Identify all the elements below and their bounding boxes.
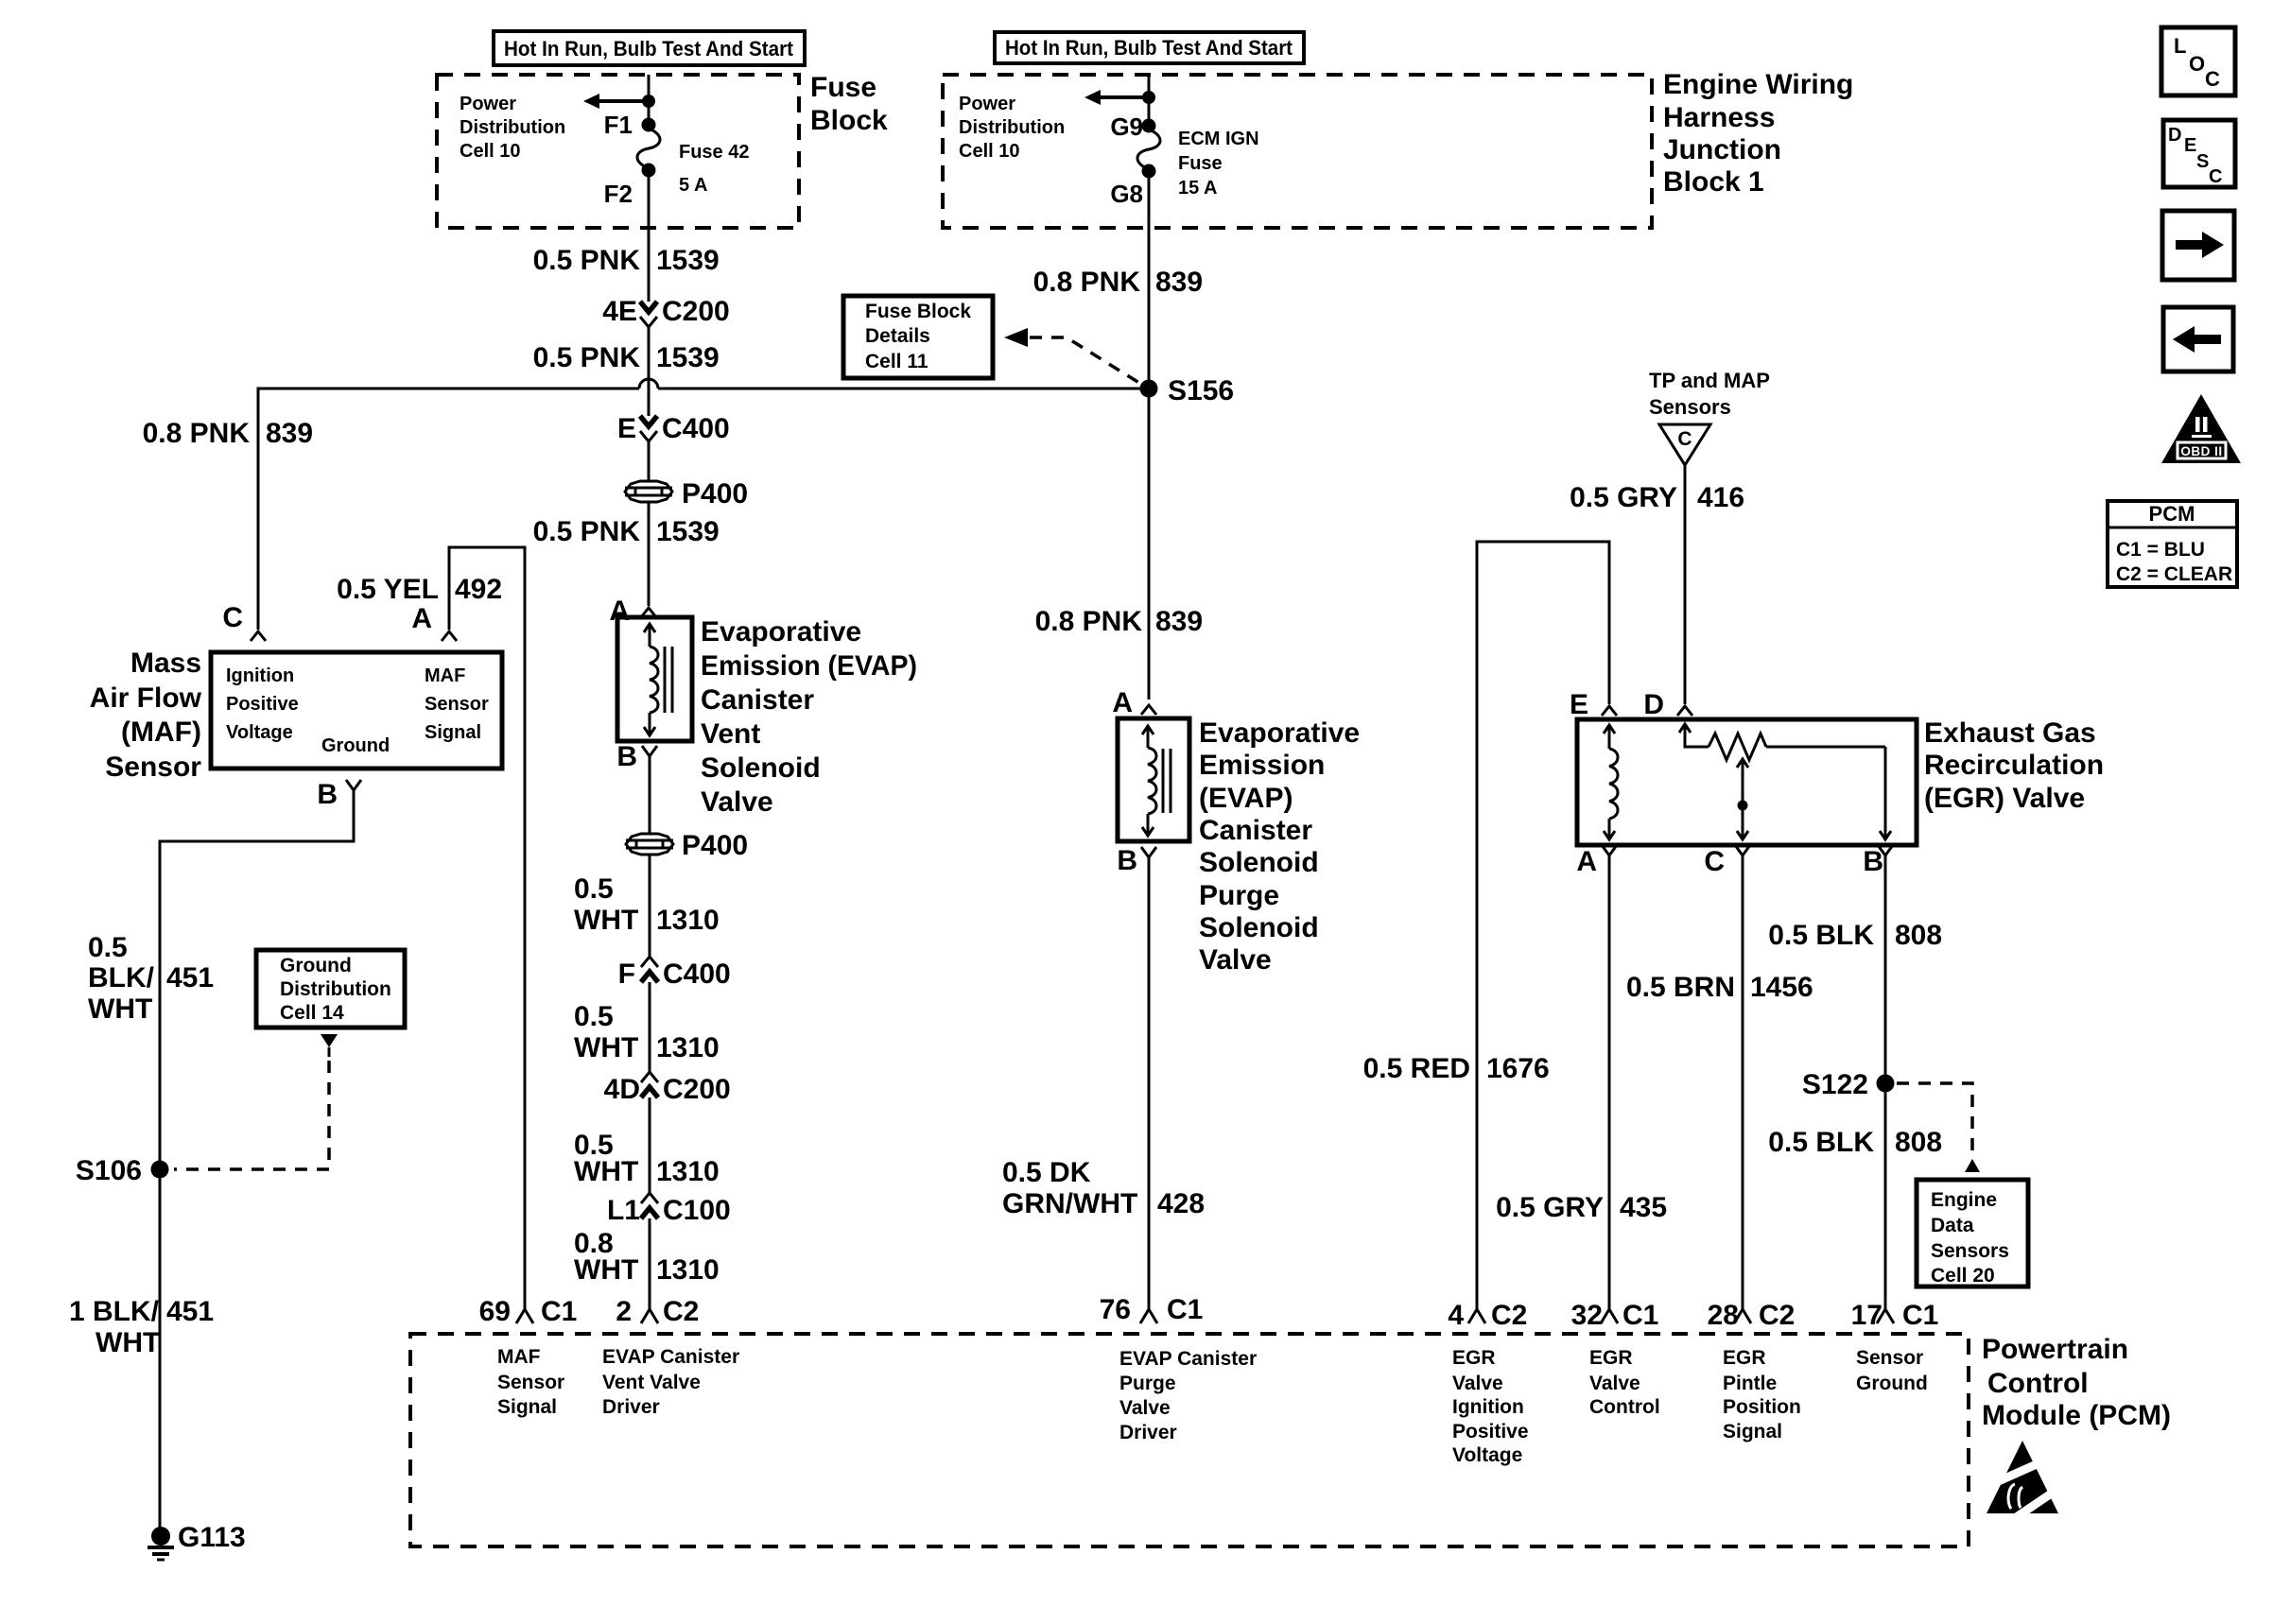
svg-text:Hot In Run, Bulb Test And Star: Hot In Run, Bulb Test And Start (1005, 36, 1293, 60)
svg-text:0.5: 0.5 (88, 932, 128, 963)
svg-text:C: C (2205, 67, 2220, 91)
icon: left arrow box (2163, 307, 2233, 371)
svg-text:C400: C400 (663, 959, 731, 990)
svg-text:WHT: WHT (574, 1032, 638, 1063)
wire: 0.5 PNK 1539 below C200 (648, 327, 651, 416)
svg-text:Signal: Signal (425, 722, 481, 743)
svg-text:76: 76 (1100, 1294, 1131, 1325)
svg-text:Details: Details (865, 325, 930, 347)
svg-text:C: C (222, 602, 243, 633)
svg-text:Driver: Driver (602, 1396, 660, 1418)
label: TP and MAP Sensors (1649, 369, 1770, 419)
svg-text:G113: G113 (178, 1522, 246, 1553)
svg-text:Canister: Canister (1199, 815, 1312, 846)
label: MAF Sensor Signal (PCM pin 69) (497, 1346, 564, 1418)
svg-text:1676: 1676 (1486, 1053, 1550, 1084)
svg-text:P400: P400 (682, 830, 748, 861)
label: 0.5 BLK 808 (upper) (1768, 920, 1942, 951)
svg-text:Engine: Engine (1931, 1189, 1997, 1211)
svg-text:Signal: Signal (497, 1396, 557, 1418)
svg-text:Fuse 42: Fuse 42 (679, 142, 749, 163)
svg-text:1456: 1456 (1750, 972, 1813, 1003)
wire: PNK 839 horizontal branch from S156 to MAF with hop over vent wire (258, 379, 1149, 630)
label: 0.5 PNK 1539 (533, 245, 720, 276)
label: 0.5 PNK 1539 (533, 342, 720, 373)
svg-text:F1: F1 (604, 111, 633, 139)
svg-text:Valve: Valve (701, 786, 773, 818)
svg-text:Purge: Purge (1199, 880, 1279, 911)
svg-text:Cell 14: Cell 14 (280, 1002, 344, 1024)
wire segment to grommet P400 (648, 441, 651, 481)
svg-text:S122: S122 (1802, 1069, 1868, 1100)
label: 0.8 WHT 1310 (574, 1228, 720, 1286)
svg-text:Valve: Valve (1119, 1397, 1171, 1419)
svg-text:Harness: Harness (1663, 102, 1775, 133)
ground G113 (147, 1522, 246, 1560)
svg-text:32: 32 (1571, 1300, 1603, 1331)
svg-text:C100: C100 (663, 1195, 731, 1226)
label: 0.8 PNK 839 (lower) (1035, 606, 1203, 637)
solenoid coil symbol (EGR pins E-A) (1604, 725, 1618, 839)
svg-text:B: B (616, 741, 637, 772)
EGR valve box (1577, 719, 1917, 845)
svg-text:B: B (1117, 845, 1137, 876)
label: Power Distribution Cell 10 (junction block) (959, 94, 1065, 162)
svg-text:E: E (1570, 689, 1588, 720)
svg-text:Sensor: Sensor (105, 752, 201, 783)
svg-text:Emission: Emission (1199, 750, 1325, 781)
ground distribution reference box (256, 950, 405, 1028)
svg-text:O: O (2189, 52, 2205, 76)
wire: feed from hot bus into ECM IGN fuse (1148, 74, 1151, 126)
PCM pin 28 C2 connector (1708, 1300, 1796, 1331)
fuse F42 5A element (637, 129, 660, 168)
PCM pin 2 C2 connector (616, 1296, 699, 1327)
label: 0.5 GRY 416 (1570, 482, 1744, 513)
fuse block details reference box (843, 296, 993, 378)
PCM connector legend box (2108, 501, 2237, 587)
MAF sensor box (211, 652, 502, 769)
svg-text:Evaporative: Evaporative (1199, 717, 1360, 749)
svg-text:E: E (2184, 135, 2196, 156)
svg-text:1310: 1310 (656, 905, 720, 936)
svg-text:EVAP Canister: EVAP Canister (1119, 1348, 1257, 1370)
svg-text:Engine Wiring: Engine Wiring (1663, 69, 1853, 100)
solenoid coil symbol (purge valve) (1142, 726, 1171, 836)
svg-text:GRN/WHT: GRN/WHT (1002, 1188, 1137, 1219)
svg-text:C: C (1677, 428, 1692, 450)
svg-text:Vent: Vent (701, 718, 760, 750)
svg-text:C: C (1704, 846, 1725, 877)
svg-text:0.5 RED: 0.5 RED (1363, 1053, 1470, 1084)
svg-text:28: 28 (1708, 1300, 1739, 1331)
label: 0.5 YEL 492 (337, 574, 502, 605)
svg-text:0.8 PNK: 0.8 PNK (1033, 267, 1141, 298)
svg-text:Ground: Ground (1856, 1373, 1928, 1394)
svg-text:Exhaust Gas: Exhaust Gas (1924, 717, 2096, 749)
solenoid coil symbol (vent valve) (644, 624, 672, 735)
label: Fuse 42 5 A (679, 142, 749, 196)
svg-text:WHT: WHT (95, 1327, 160, 1358)
svg-text:(MAF): (MAF) (121, 717, 201, 748)
svg-text:C2: C2 (1759, 1300, 1795, 1331)
label: 0.8 PNK 839 (left branch) (143, 418, 313, 449)
label: 0.5 PNK 1539 (533, 516, 720, 547)
wire: 0.5 YEL 492 from MAF pin A to PCM pin 69 (449, 547, 525, 1309)
ESD sensitivity symbol (1986, 1441, 2071, 1520)
wire: 0.8 PNK 839 from S156 to EVAP purge solenoid (1148, 389, 1151, 700)
svg-text:MAF: MAF (497, 1346, 541, 1368)
svg-text:839: 839 (1155, 606, 1203, 637)
pin G9 (1110, 112, 1155, 141)
svg-text:Position: Position (1723, 1396, 1801, 1418)
pin A of EGR valve (1576, 845, 1617, 877)
svg-text:0.5 PNK: 0.5 PNK (533, 516, 641, 547)
svg-text:Control: Control (1589, 1396, 1660, 1418)
svg-text:Distribution: Distribution (460, 117, 565, 138)
connector F C400 (618, 957, 731, 990)
wire: 0.5 DK GRN/WHT 428 to PCM pin 76 (1148, 857, 1151, 1309)
svg-text:4: 4 (1448, 1300, 1464, 1331)
svg-text:Ignition: Ignition (226, 665, 294, 686)
svg-text:4E: 4E (602, 296, 637, 327)
wire: 0.5 WHT 1310 (649, 982, 651, 1072)
wire: 0.5 BRN 1456 from EGR pin C to PCM pin 28 (1742, 855, 1744, 1309)
svg-text:17: 17 (1851, 1300, 1883, 1331)
svg-text:Sensor: Sensor (497, 1372, 564, 1393)
svg-text:428: 428 (1157, 1188, 1205, 1219)
svg-text:Evaporative: Evaporative (701, 616, 861, 648)
pin C of MAF sensor (222, 602, 266, 641)
svg-text:0.8 PNK: 0.8 PNK (1035, 606, 1143, 637)
svg-text:Ignition: Ignition (1452, 1396, 1524, 1418)
svg-text:0.5 PNK: 0.5 PNK (533, 342, 641, 373)
label: 0.5 GRY 435 (1496, 1192, 1667, 1223)
svg-text:0.5 BRN: 0.5 BRN (1626, 972, 1735, 1003)
svg-text:Fuse Block: Fuse Block (865, 301, 971, 322)
pin F2 (604, 164, 656, 209)
svg-text:Solenoid: Solenoid (701, 752, 821, 784)
pin A of EVAP vent solenoid (609, 596, 656, 627)
label: 0.5 DK GRN/WHT 428 (1002, 1157, 1205, 1219)
svg-text:Valve: Valve (1452, 1373, 1503, 1394)
svg-text:WHT: WHT (574, 905, 638, 936)
svg-text:0.8 PNK: 0.8 PNK (143, 418, 251, 449)
svg-text:MAF: MAF (425, 665, 465, 686)
label: Engine Wiring Harness Junction Block 1 (1663, 69, 1853, 198)
svg-text:Air Flow: Air Flow (90, 682, 202, 714)
svg-text:D: D (1643, 689, 1664, 720)
svg-text:ECM IGN: ECM IGN (1178, 129, 1259, 149)
svg-text:EGR: EGR (1723, 1347, 1766, 1369)
svg-text:Junction: Junction (1663, 134, 1781, 165)
svg-text:451: 451 (166, 1296, 214, 1327)
splice S156 (1140, 375, 1235, 406)
label: 0.5 BLK 808 (lower) (1768, 1127, 1942, 1158)
wire: 0.5 RED 1676 from PCM pin 4 up and over to EGR pin E (1477, 542, 1609, 1309)
label: EGR Valve Control (PCM pin 32) (1589, 1347, 1660, 1418)
label: Sensor Ground (PCM pin 17) (1856, 1347, 1928, 1394)
svg-text:0.5 BLK: 0.5 BLK (1768, 920, 1874, 951)
svg-text:Sensors: Sensors (1649, 395, 1731, 419)
svg-text:TP and MAP: TP and MAP (1649, 369, 1770, 392)
icon: LOC box (2161, 27, 2235, 95)
dashed leader from S106 to ground distribution box (174, 1034, 338, 1169)
svg-text:0.5 YEL: 0.5 YEL (337, 574, 439, 605)
svg-text:1539: 1539 (656, 245, 720, 276)
svg-text:F2: F2 (604, 180, 633, 208)
svg-text:A: A (1576, 846, 1597, 877)
svg-text:Vent Valve: Vent Valve (602, 1372, 701, 1393)
icon: OBD II triangle (2161, 394, 2241, 463)
svg-text:1 BLK/: 1 BLK/ (69, 1296, 160, 1327)
svg-text:Positive: Positive (226, 694, 299, 715)
header box: Hot In Run, Bulb Test And Start (junction block) (995, 32, 1304, 63)
label: MAF Sensor Signal (MAF pin A) (425, 665, 489, 743)
svg-text:(EVAP): (EVAP) (1199, 783, 1293, 814)
svg-text:451: 451 (166, 962, 214, 993)
svg-text:G9: G9 (1110, 112, 1143, 141)
svg-text:Block 1: Block 1 (1663, 166, 1764, 198)
wire: 0.8 PNK 839 from G8 to S156 (1148, 175, 1151, 389)
svg-text:Signal: Signal (1723, 1421, 1782, 1443)
svg-text:WHT: WHT (574, 1156, 638, 1187)
svg-text:0.5 BLK: 0.5 BLK (1768, 1127, 1874, 1158)
svg-text:Cell 10: Cell 10 (959, 141, 1019, 162)
svg-text:1310: 1310 (656, 1156, 720, 1187)
PCM pin 32 C1 connector (1571, 1300, 1659, 1331)
svg-text:Powertrain: Powertrain (1982, 1334, 2128, 1365)
svg-text:0.5: 0.5 (574, 873, 614, 905)
svg-text:Power: Power (460, 94, 516, 114)
svg-text:P400: P400 (682, 478, 748, 510)
svg-text:Positive: Positive (1452, 1421, 1529, 1443)
svg-text:PCM: PCM (2149, 502, 2195, 526)
icon: DESC box (2163, 120, 2235, 187)
dashed leader from S122 to engine data sensors box (1897, 1083, 1980, 1172)
powertrain control module dashed box (410, 1334, 1969, 1546)
engine wiring harness junction block dashed box (943, 75, 1652, 228)
PCM pin 76 C1 connector (1100, 1294, 1204, 1325)
svg-text:B: B (1863, 846, 1883, 877)
svg-text:A: A (1112, 687, 1133, 718)
label: EGR Valve Ignition Positive Voltage (PCM pin 4) (1452, 1347, 1529, 1466)
label: 0.8 PNK 839 (upper) (1033, 267, 1203, 298)
label: ECM IGN Fuse 15 A (1178, 129, 1259, 199)
svg-text:C: C (2209, 166, 2222, 187)
pin B of EVAP purge solenoid (1117, 845, 1156, 876)
pin E of EGR valve (1570, 689, 1617, 720)
pin F1 (604, 111, 656, 139)
svg-text:B: B (317, 779, 338, 810)
svg-text:C2: C2 (663, 1296, 699, 1327)
svg-text:E: E (617, 413, 636, 444)
label: Ignition Positive Voltage (MAF pin C) (226, 665, 299, 743)
svg-text:5 A: 5 A (679, 175, 707, 196)
pin B of EVAP vent solenoid (616, 741, 657, 772)
wire below vent solenoid (649, 756, 651, 834)
svg-text:C1: C1 (541, 1296, 577, 1327)
splice S122 (1802, 1069, 1895, 1100)
svg-text:Fuse: Fuse (810, 72, 876, 103)
svg-text:1539: 1539 (656, 342, 720, 373)
svg-text:Fuse: Fuse (1178, 153, 1223, 174)
EVAP canister vent solenoid valve box (617, 617, 692, 741)
label: Evaporative Emission (EVAP) Canister Vent Solenoid Valve (701, 616, 917, 818)
label: 0.5 BRN 1456 (1626, 972, 1813, 1003)
svg-text:0.5 DK: 0.5 DK (1002, 1157, 1091, 1188)
wire: 0.5 PNK 1539 from fuse F2 down (648, 174, 651, 302)
PCM pin 4 C2 connector (1448, 1300, 1527, 1331)
connector E C400 (617, 413, 730, 444)
svg-text:L1: L1 (607, 1195, 640, 1226)
svg-text:C2: C2 (1491, 1300, 1527, 1331)
svg-text:C200: C200 (663, 1074, 731, 1105)
svg-text:EVAP Canister: EVAP Canister (602, 1346, 739, 1368)
PCM pin 69 C1 connector (479, 1296, 578, 1327)
svg-text:492: 492 (455, 574, 502, 605)
wire: 0.5 WHT 1310 (649, 855, 651, 957)
svg-text:Block: Block (810, 105, 888, 136)
arrow: power distribution feed (left) (583, 94, 649, 109)
pin B of MAF sensor (317, 779, 361, 810)
svg-text:808: 808 (1895, 1127, 1942, 1158)
pin G8 (1110, 164, 1155, 209)
svg-text:839: 839 (266, 418, 313, 449)
junction dot at ECM IGN feed (1142, 91, 1155, 104)
label: Powertrain Control Module (PCM) (1982, 1334, 2171, 1431)
svg-text:Canister: Canister (701, 684, 814, 716)
svg-text:BLK/: BLK/ (88, 962, 155, 993)
svg-text:Valve: Valve (1199, 944, 1272, 976)
svg-text:Control: Control (1987, 1368, 2089, 1399)
label: 0.5 WHT 1310 (574, 873, 720, 936)
svg-text:Solenoid: Solenoid (1199, 912, 1319, 943)
label: Mass Air Flow (MAF) Sensor (90, 648, 202, 783)
svg-text:Solenoid: Solenoid (1199, 847, 1319, 878)
svg-text:1539: 1539 (656, 516, 720, 547)
dashed leader from S156 to fuse block details box (1004, 328, 1142, 385)
svg-text:Distribution: Distribution (280, 978, 391, 1000)
svg-text:A: A (411, 603, 432, 634)
engine data sensors reference box (1917, 1180, 2028, 1287)
connector L1 C100 (607, 1193, 731, 1226)
svg-text:C1: C1 (1622, 1300, 1658, 1331)
pin C of EGR valve (1704, 845, 1750, 877)
svg-text:1310: 1310 (656, 1254, 720, 1286)
svg-text:D: D (2168, 125, 2181, 146)
EGR pintle position potentiometer (pins D-C-B) (1679, 724, 1891, 839)
grommet P400 (upper) (625, 478, 748, 510)
pin A of MAF sensor (411, 603, 457, 641)
svg-text:839: 839 (1155, 267, 1203, 298)
label: Evaporative Emission (EVAP) Canister Solenoid Purge Solenoid Valve (1199, 717, 1360, 976)
svg-text:C1: C1 (1167, 1294, 1203, 1325)
wire: 0.5 GRY 416 from triangle to EGR pin D (1684, 465, 1687, 704)
svg-text:435: 435 (1620, 1192, 1667, 1223)
svg-text:Driver: Driver (1119, 1422, 1177, 1443)
svg-text:Voltage: Voltage (1452, 1444, 1522, 1466)
svg-text:0.5 PNK: 0.5 PNK (533, 245, 641, 276)
PCM pin 17 C1 connector (1851, 1300, 1939, 1331)
svg-text:EGR: EGR (1452, 1347, 1496, 1369)
svg-text:808: 808 (1895, 920, 1942, 951)
svg-text:416: 416 (1697, 482, 1744, 513)
svg-text:15 A: 15 A (1178, 178, 1218, 199)
svg-text:L: L (2174, 34, 2186, 58)
fuse block dashed box (437, 75, 799, 228)
label: 0.5 BLK/ WHT 451 (88, 932, 214, 1025)
svg-text:S106: S106 (76, 1155, 142, 1186)
svg-text:(EGR) Valve: (EGR) Valve (1924, 783, 2085, 814)
svg-text:Voltage: Voltage (226, 722, 293, 743)
svg-text:WHT: WHT (88, 993, 152, 1025)
wire: 0.5 BLK/WHT 451 from MAF pin B to G113 (160, 790, 354, 1536)
svg-text:S156: S156 (1168, 375, 1234, 406)
wire: 0.5 WHT 1310 (649, 1097, 651, 1193)
svg-text:WHT: WHT (574, 1254, 638, 1286)
svg-text:Module (PCM): Module (PCM) (1982, 1400, 2171, 1431)
svg-text:Ground: Ground (321, 735, 390, 756)
fuse ECM IGN 15A element (1137, 130, 1160, 169)
svg-text:Purge: Purge (1119, 1373, 1176, 1394)
label: Exhaust Gas Recirculation (EGR) Valve (1924, 717, 2104, 814)
pin B of EGR valve (1863, 845, 1893, 877)
svg-text:Cell 10: Cell 10 (460, 141, 520, 162)
svg-text:S: S (2196, 151, 2209, 172)
header box: Hot In Run, Bulb Test And Start (fuse block) (494, 31, 805, 65)
svg-text:C200: C200 (662, 296, 730, 327)
svg-text:Emission (EVAP): Emission (EVAP) (701, 650, 917, 682)
connector 4D C200 (604, 1072, 731, 1105)
svg-text:2: 2 (616, 1296, 632, 1327)
svg-text:Ground: Ground (280, 955, 352, 976)
label: 0.5 WHT 1310 (574, 1001, 720, 1063)
svg-text:Hot In Run, Bulb Test And Star: Hot In Run, Bulb Test And Start (504, 37, 794, 60)
svg-text:C400: C400 (662, 413, 730, 444)
pin A of EVAP purge solenoid (1112, 687, 1156, 718)
svg-text:1310: 1310 (656, 1032, 720, 1063)
svg-text:Sensor: Sensor (425, 694, 489, 715)
svg-text:EGR: EGR (1589, 1347, 1633, 1369)
junction dot at fuse feed (642, 95, 655, 108)
svg-text:Cell 20: Cell 20 (1931, 1265, 1995, 1287)
label: 1 BLK/ WHT 451 (69, 1296, 214, 1358)
wire: 0.5 GRY 435 from EGR pin A to PCM pin 32 (1608, 855, 1611, 1309)
svg-text:0.5 GRY: 0.5 GRY (1496, 1192, 1604, 1223)
wire: feed from hot bus into fuse 42 (648, 75, 651, 125)
svg-text:0.5: 0.5 (574, 1001, 614, 1032)
svg-text:Sensor: Sensor (1856, 1347, 1923, 1369)
svg-text:Mass: Mass (130, 648, 201, 679)
svg-text:C2 = CLEAR: C2 = CLEAR (2116, 563, 2232, 585)
wire: 0.5 PNK 1539 to EVAP vent solenoid (648, 503, 651, 606)
svg-text:69: 69 (479, 1296, 511, 1327)
svg-text:4D: 4D (604, 1074, 640, 1105)
label: 0.5 WHT 1310 (574, 1130, 720, 1187)
connector 4E C200 (602, 296, 729, 327)
icon: right arrow box (2162, 211, 2234, 280)
svg-text:G8: G8 (1110, 180, 1143, 208)
svg-text:F: F (618, 959, 635, 990)
svg-text:Cell 11: Cell 11 (865, 351, 928, 372)
splice S106 (76, 1155, 169, 1186)
svg-text:C1 = BLU: C1 = BLU (2116, 539, 2205, 561)
svg-text:Pintle: Pintle (1723, 1373, 1777, 1394)
svg-text:0.5 GRY: 0.5 GRY (1570, 482, 1677, 513)
svg-text:Data: Data (1931, 1215, 1974, 1236)
svg-text:Power: Power (959, 94, 1015, 114)
